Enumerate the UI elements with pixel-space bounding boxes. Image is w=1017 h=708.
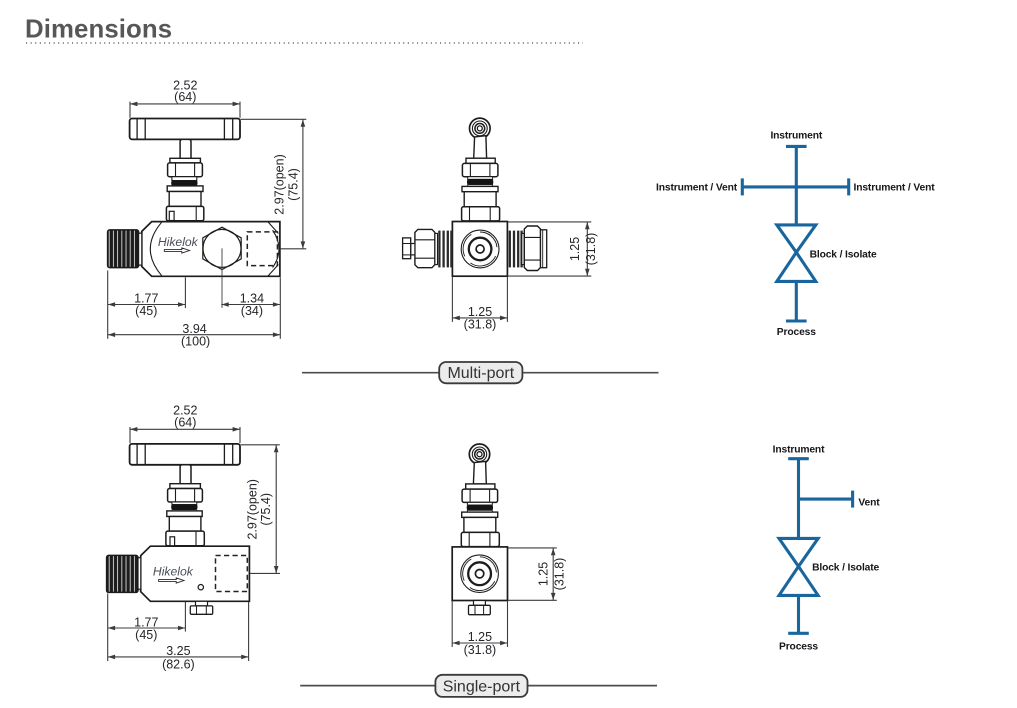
right fitting shoulder [522,233,525,264]
spacer ring [172,177,197,181]
Single-port label box [435,675,527,697]
port bore circles [456,550,504,598]
valve body square [452,547,507,601]
bonnet lower hex nut [166,206,203,220]
dimension 1.25 (31.8) rotated text [537,558,567,591]
instrument port tick [786,145,807,148]
svg-text:Hikelok: Hikelok [158,235,199,249]
hidden outlet port (dashed) [247,232,277,266]
svg-text:(100): (100) [181,334,210,348]
dimension line 1.25 vertical (right of side view) [508,222,592,276]
spacer ring [467,502,492,505]
bottom port stem [196,601,208,606]
bonnet cylinder [464,192,496,207]
process port tick [788,632,809,635]
dimension 2.97(open) (75.4) rotated text [245,479,273,539]
vertical line valve to process [795,281,798,321]
dimension line 1.25 bottom [452,601,507,647]
right end ferrule [541,230,547,268]
hidden outlet port (dashed) [216,556,248,592]
dimension line 2.97 vertical with arrows and extensions [241,119,307,249]
svg-text:Instrument: Instrument [770,130,822,141]
dimension line 3.94 with extensions [108,271,281,339]
page title "Dimensions" [25,16,172,44]
flow direction arrow [164,248,189,253]
bonnet flange [462,186,498,191]
port bore circles [456,225,504,273]
dimension line 1.25 vertical (right of single side view) [508,548,557,600]
dimension line 3.25 with extensions [108,594,249,662]
valve body (front view, chamfered block) [142,222,280,277]
bonnet lower hex nut [166,531,204,546]
black O-ring seal [467,505,492,510]
handle stem [180,139,191,158]
thin link ring [171,510,173,511]
stem flange washer [466,158,495,163]
svg-text:2.97(open): 2.97(open) [245,479,259,539]
dimension line 1.34 [221,302,280,307]
vent port tick [851,491,854,508]
process port tick [786,319,807,322]
horizontal cross line [742,185,848,188]
vertical line valve to process [797,595,800,633]
svg-text:(31.8): (31.8) [464,643,497,657]
block valve bowtie symbol [777,225,816,282]
Multi-port label box [439,362,522,383]
dimension 3.25 (82.6) text [162,644,195,672]
gauge port circle [198,585,203,590]
left plug stub [411,244,415,255]
svg-text:(45): (45) [135,304,157,318]
svg-text:Dimensions: Dimensions [25,16,172,44]
thin link ring [468,185,493,187]
dimension line 1.77 [108,277,186,308]
black O-ring seal [468,179,493,184]
packing hex nut [168,163,203,177]
svg-text:1.25: 1.25 [568,237,582,261]
T-handle bar [130,119,240,140]
svg-text:(31.8): (31.8) [464,318,497,332]
bonnet cylinder [169,517,201,532]
bonnet cylinder [464,517,496,532]
thread step collar [138,558,141,590]
svg-text:Multi-port: Multi-port [447,365,514,382]
divider line [302,372,659,374]
svg-text:2.97(open): 2.97(open) [273,154,287,214]
svg-text:(45): (45) [135,628,157,642]
valve body square [452,222,507,277]
dimension line 1.25 bottom [452,277,507,322]
svg-text:Hikelok: Hikelok [153,565,194,579]
dimension 1.34 (34) text [240,292,264,319]
dimension 3.94 (100) text [181,322,210,349]
svg-text:Instrument / Vent: Instrument / Vent [854,183,936,194]
dimension 1.77 (45) text [134,292,158,319]
black O-ring seal [172,181,197,186]
svg-text:(31.8): (31.8) [552,558,566,591]
right fitting threads [510,231,522,268]
svg-text:3.25: 3.25 [166,644,190,658]
handle stem (side) [473,461,486,484]
bottom port stem [474,601,486,606]
dimension 1.25 (31.8) bottom text [464,630,497,657]
svg-text:(64): (64) [174,415,196,429]
vent branch line [799,498,853,501]
svg-text:Process: Process [777,327,816,338]
svg-text:(31.8): (31.8) [584,233,598,266]
thread step collar [139,233,142,265]
svg-text:(82.6): (82.6) [162,658,195,672]
left fitting shoulder [435,233,438,264]
packing hex nut [462,163,498,176]
dimension line 2.97 vertical with arrows and extensions [241,445,280,574]
body left transition arc [150,222,161,276]
packing hex nut [168,489,203,503]
left plug hex head [403,238,411,259]
block valve bowtie symbol [779,538,818,595]
valve body (single-port block) [141,546,250,601]
vertical line instrument to valve [795,146,798,225]
dimension 2.97(open) (75.4) rotated text [273,154,301,214]
svg-text:(34): (34) [241,304,263,318]
bottom port hex plug [469,605,491,614]
dotted rule under title [26,42,583,44]
stem flange washer [170,484,201,489]
T-handle bar [130,444,240,465]
thin link ring [467,510,492,512]
left fitting nut [415,229,435,267]
svg-text:(75.4): (75.4) [286,168,300,201]
port circle [203,229,241,267]
vertical line instrument to valve [797,459,800,539]
spacer ring [468,177,493,180]
dimension 1.25 (31.8) bottom text [464,305,497,332]
bonnet flange [167,511,202,517]
handle end-on circles [470,118,491,139]
dimension 1.77 (45) text [134,615,158,642]
bonnet lower hex nut [461,532,499,546]
svg-text:Vent: Vent [858,497,880,508]
bonnet lower hex nut [462,207,500,221]
bonnet flange [167,186,203,192]
handle stem [180,465,191,484]
svg-text:Block / Isolate: Block / Isolate [812,562,879,573]
bonnet flange [462,512,498,517]
handle stem (side) [474,136,487,159]
dimension line 2.52 with arrows and extension lines [130,102,240,118]
bonnet cylinder [169,192,201,207]
port centerline [221,248,223,308]
dimension line 1.77 [108,602,186,632]
right fitting nut [524,226,540,271]
left fitting threads [439,231,451,268]
right port tick [847,178,850,195]
svg-text:(64): (64) [174,90,196,104]
stem flange washer [466,484,495,489]
instrument port tick [788,457,809,460]
divider line [300,685,657,687]
flow direction arrow [159,578,184,583]
svg-text:Instrument: Instrument [773,444,825,455]
svg-text:Single-port: Single-port [443,678,521,695]
body right end chamfer edges [268,222,279,276]
black O-ring seal [172,505,197,510]
spacer ring [172,502,197,505]
bottom port hex plug [190,606,212,614]
handle end-on circles [469,444,489,464]
svg-text:Instrument / Vent: Instrument / Vent [656,183,738,194]
male NPT threaded end [107,555,138,592]
svg-text:(75.4): (75.4) [259,493,273,526]
dimension line 2.52 with arrows and extensions [130,427,240,443]
stem flange washer [170,158,201,163]
hex port boss [203,227,241,269]
dimension text 2.52 (64) [173,78,197,104]
svg-text:Block / Isolate: Block / Isolate [810,249,877,260]
svg-text:Process: Process [779,641,818,652]
left port tick [741,178,744,195]
dimension text 2.52 (64) [173,404,197,430]
male NPT threaded end [108,230,139,268]
packing hex nut [462,489,498,502]
dimension 1.25 (31.8) rotated text [568,233,598,266]
svg-text:1.25: 1.25 [537,562,551,586]
